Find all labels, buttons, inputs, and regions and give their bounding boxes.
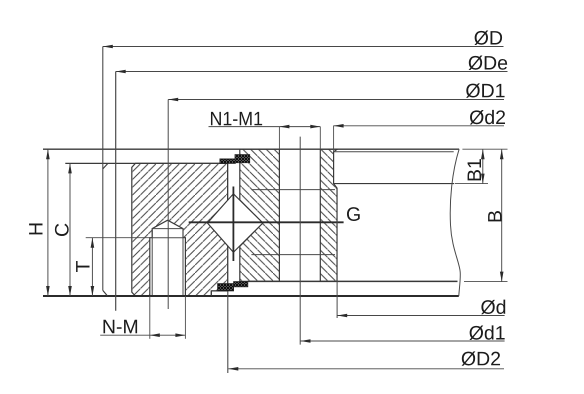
ØD1 dim line xyxy=(168,99,504,101)
top seal right part xyxy=(235,155,250,163)
Ød2 dim line xyxy=(334,125,504,127)
ØDe line xyxy=(115,72,117,311)
N1-M1 arrows xyxy=(279,125,289,129)
label B1 xyxy=(468,159,481,180)
N1-M1 hole edge left ext xyxy=(278,127,280,150)
C dim xyxy=(69,163,71,296)
label OD1 xyxy=(466,83,504,97)
N-M underline + dim line xyxy=(100,334,185,336)
label OD xyxy=(474,31,502,45)
N1-M1 hole centerline / Ød1 ext xyxy=(299,137,301,345)
ØD chamfer bottom xyxy=(103,290,108,296)
seal recess face bottom xyxy=(211,290,228,292)
Ød1 dim line xyxy=(301,340,505,342)
B dim xyxy=(501,149,503,281)
raceway groove projected bottom xyxy=(251,254,335,256)
recess step vertical xyxy=(210,291,212,296)
ØD2 dim line xyxy=(228,368,504,370)
ball centerline vertical xyxy=(232,187,234,262)
N-M drill edge ext right xyxy=(184,296,186,339)
N-M drill edge ext left xyxy=(149,296,151,339)
inner ring bottom face (thick) xyxy=(43,295,459,297)
outer ring section, left part (between gap and bolt hole) xyxy=(240,149,280,281)
ØD2 arrow xyxy=(228,367,238,371)
N1-M1 dim line + underline xyxy=(209,126,321,128)
label C xyxy=(55,224,69,236)
Ød2 ext above flange xyxy=(333,126,335,152)
ØD1 / N-M centerline xyxy=(167,100,169,310)
top face line (outer ring top, projected) xyxy=(43,148,459,150)
label Od1 xyxy=(469,325,504,340)
label Od2 xyxy=(470,110,505,125)
C arrows xyxy=(68,163,72,173)
T dim xyxy=(91,238,93,296)
ØDe arrow xyxy=(116,70,126,74)
bore chamfer line top xyxy=(334,151,454,153)
label B xyxy=(488,211,501,221)
break line (S curve) xyxy=(450,149,460,296)
B arrows xyxy=(500,149,504,159)
B1 step ext xyxy=(455,183,488,185)
Ød dim line xyxy=(337,315,504,317)
Ød2 arrow xyxy=(334,124,344,128)
N-M drill cone base line xyxy=(152,228,183,230)
label G xyxy=(347,207,360,221)
outer ring bottom face xyxy=(248,280,458,282)
N-M arrows xyxy=(150,333,160,337)
label Od xyxy=(481,300,505,315)
ØD arrow xyxy=(103,45,113,49)
inner ring section (left block) with N-M tapped hole xyxy=(132,163,228,296)
Ød arrow xyxy=(337,314,347,318)
inner ring right edge bottom + OD2 ext xyxy=(227,246,229,373)
Ød bore edge + ext xyxy=(336,188,338,318)
label OD2 xyxy=(462,351,500,365)
ball (diamond) white body with outline xyxy=(208,194,263,253)
ØD1 arrow xyxy=(168,98,178,102)
ØDe dim line xyxy=(116,71,508,73)
label T xyxy=(76,261,89,272)
B1 arrows xyxy=(481,149,485,159)
T top tick xyxy=(86,237,150,239)
label NM xyxy=(103,320,137,333)
inner ring right edge top xyxy=(227,163,229,200)
bottom seal left part xyxy=(218,284,234,291)
label N1M1 xyxy=(211,112,262,125)
outer bottom ext right of break xyxy=(464,281,508,283)
B1 step line xyxy=(334,183,455,185)
top seal left part xyxy=(220,159,236,164)
N1-M1 hole edge right ext xyxy=(319,127,321,150)
Ød1 arrow xyxy=(301,339,311,343)
H arrows xyxy=(46,149,50,159)
raceway groove projected top xyxy=(251,189,335,191)
G line (grease hole centerline) xyxy=(189,221,344,223)
label H xyxy=(29,224,42,235)
ØD silhouette + ext xyxy=(102,47,104,291)
T arrows xyxy=(91,238,95,248)
H dim xyxy=(47,149,49,296)
B1 dim xyxy=(482,149,484,183)
inner ring top face xyxy=(65,162,227,164)
outer ring section, right strip (between bolt hole and bore) xyxy=(320,149,337,281)
ØD chamfer top xyxy=(103,163,108,169)
top face ext right of break (B/B1 ext) xyxy=(462,148,507,150)
ØD dim line xyxy=(103,46,504,48)
bottom seal right part xyxy=(234,282,248,287)
N-M thread minor (drill) lines inside hole xyxy=(151,229,153,296)
label ODe xyxy=(469,56,508,70)
N-M thread depth shoulder line xyxy=(152,237,183,239)
